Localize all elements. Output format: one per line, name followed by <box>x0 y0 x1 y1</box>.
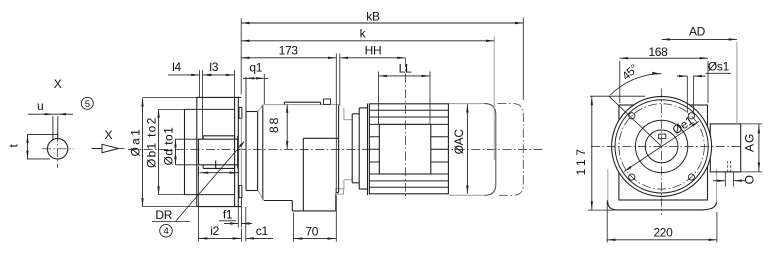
dimension 173 <box>241 43 336 59</box>
AG ext top <box>741 123 762 125</box>
Oa1 extension bottom <box>143 206 197 208</box>
svg-text:LL: LL <box>399 61 412 75</box>
bell tab top <box>239 107 242 118</box>
label OAC <box>452 129 466 155</box>
base silhouette bottom <box>608 202 717 210</box>
dimension O <box>713 180 746 182</box>
svg-text:88: 88 <box>267 117 281 133</box>
motor side fin a <box>369 136 448 138</box>
base silhouette gray right <box>716 169 718 202</box>
fan cowl top <box>449 103 485 105</box>
case bottom edge <box>264 200 292 202</box>
q1 disc bottom <box>246 190 258 192</box>
LL extension left <box>378 72 380 125</box>
HH extension left <box>339 54 341 106</box>
fan cowl right <box>485 104 496 196</box>
l extension left <box>198 166 200 176</box>
bell S-curve bottom <box>258 191 263 201</box>
70 extension right <box>335 196 337 242</box>
flange outer circle <box>612 96 712 196</box>
svg-text:l3: l3 <box>209 60 218 74</box>
bolt hole 3 <box>629 174 635 180</box>
dimension i2 <box>199 224 242 239</box>
case front face <box>262 104 264 200</box>
svg-text:X: X <box>54 77 62 91</box>
Ob1 extension top <box>159 108 185 110</box>
svg-text:117: 117 <box>574 149 588 176</box>
kB extension right <box>522 18 524 101</box>
dimension AD <box>662 24 737 40</box>
DR leader <box>176 141 245 221</box>
svg-text:173: 173 <box>279 43 299 57</box>
pilot cylinder front face <box>184 109 186 194</box>
dimension Oa1 line <box>141 98 143 206</box>
label Oe1 <box>670 113 696 137</box>
AG box <box>710 124 740 172</box>
cable entry mark <box>728 161 731 172</box>
dimension l3 <box>203 60 235 76</box>
flange crosshair v <box>661 89 663 216</box>
brake variant dashdot <box>498 104 524 196</box>
173/HH extension mid <box>335 54 337 193</box>
dimension AG <box>758 124 760 172</box>
shaft collar bottom <box>203 165 235 169</box>
dimension l4 <box>168 60 200 76</box>
flange crosshair h <box>591 145 741 147</box>
label AG <box>743 134 757 152</box>
Od extension top <box>176 138 199 140</box>
adapter step B <box>352 114 359 183</box>
label Ob1 to2 <box>145 117 159 168</box>
dimension t <box>26 135 28 159</box>
label f1 <box>219 207 236 221</box>
svg-text:HH: HH <box>365 43 382 57</box>
balloon 4 <box>160 224 173 237</box>
k extension right <box>493 37 495 161</box>
pilot top edge <box>185 108 235 110</box>
label Oa1 <box>128 129 142 157</box>
Os1 ext lines <box>687 76 693 113</box>
key top edge + t extension <box>27 134 58 136</box>
svg-text:168: 168 <box>648 45 668 59</box>
dimension Ob1 line <box>157 109 159 194</box>
kB extension left <box>240 18 242 94</box>
svg-text:Ød to1: Ød to1 <box>161 127 175 166</box>
c1 extension <box>245 207 247 242</box>
svg-text:AD: AD <box>689 24 706 38</box>
shaft top line <box>199 138 238 140</box>
bell tab bottom <box>239 186 242 198</box>
Ob1 extension bottom <box>159 194 185 196</box>
dimension OAC line <box>466 104 468 194</box>
lower box <box>292 193 338 212</box>
Oa1 extension top <box>143 96 197 98</box>
square flange body <box>619 105 708 200</box>
l4 lines <box>200 70 211 139</box>
svg-text:Øa1: Øa1 <box>128 129 142 157</box>
svg-text:4: 4 <box>164 226 169 237</box>
label 45deg <box>620 63 640 83</box>
q1 disc face <box>245 77 247 191</box>
label O <box>742 175 756 184</box>
view label X (detail) <box>54 77 62 91</box>
motor flange face <box>338 105 340 192</box>
svg-text:X: X <box>105 128 113 142</box>
dimension 117 <box>591 96 593 210</box>
i2 extension right <box>240 229 242 242</box>
svg-text:i2: i2 <box>210 224 219 238</box>
220 ext right <box>716 212 718 243</box>
case top edge <box>284 102 320 104</box>
adapter step D <box>367 104 369 196</box>
168 extension left <box>619 61 621 103</box>
view direction arrow X <box>92 144 125 152</box>
dimension HH <box>340 43 406 59</box>
dimension l <box>200 158 239 174</box>
svg-text:O: O <box>742 175 756 184</box>
key side lines / u extension <box>53 116 58 139</box>
dimension Oe1 <box>624 121 699 171</box>
dimension 70 <box>294 224 337 239</box>
f1 extension a <box>237 207 239 228</box>
motor fin 6 <box>369 186 448 188</box>
main centerline <box>128 148 545 150</box>
shaft bottom line <box>199 164 238 166</box>
Os1 label <box>706 59 732 73</box>
svg-text:l4: l4 <box>172 60 181 74</box>
O ext lines <box>725 173 733 187</box>
dimension 220 <box>607 226 717 242</box>
inner case step <box>303 138 338 211</box>
motor centerline vertical <box>404 58 406 199</box>
dimension f1 <box>224 222 252 224</box>
168 extension right <box>707 61 709 103</box>
case top gray line <box>264 104 339 106</box>
bolt circle <box>619 104 704 189</box>
flange top edge <box>197 96 241 98</box>
fan cowl bottom <box>449 194 485 196</box>
117 ext bottom <box>588 209 615 211</box>
Od extension bottom <box>176 164 199 166</box>
dimension u <box>28 113 73 115</box>
svg-text:kB: kB <box>366 9 380 23</box>
AD extension right gray <box>736 42 738 124</box>
svg-text:c1: c1 <box>256 224 269 238</box>
flange ring circle <box>615 100 708 193</box>
terminal box rect <box>379 124 431 174</box>
keyway <box>659 134 666 139</box>
dimension kB <box>241 9 523 24</box>
top plug <box>324 99 331 104</box>
dimension 45deg arc <box>610 72 661 95</box>
dimension q1 <box>243 60 268 79</box>
label 88 <box>267 117 281 133</box>
adapter gray ring <box>344 108 352 190</box>
label t <box>7 144 21 148</box>
motor fin 3 <box>369 123 448 125</box>
dimension c1 <box>246 224 273 239</box>
base silhouette gray left <box>607 169 609 202</box>
svg-text:DR: DR <box>155 208 172 222</box>
svg-text:5: 5 <box>85 99 90 110</box>
svg-text:ØAC: ØAC <box>452 129 466 155</box>
svg-text:f1: f1 <box>223 207 233 221</box>
flange bottom edge <box>197 206 241 208</box>
q1 disc back <box>257 112 259 191</box>
motor fin 1 <box>369 109 448 111</box>
label u <box>37 99 43 113</box>
motor side fin c <box>369 161 448 163</box>
bolt hole 2 <box>688 113 694 119</box>
q1 extension right <box>263 74 265 104</box>
l3 extension right <box>234 70 236 97</box>
shaft crosshair <box>42 133 74 169</box>
motor fin 2 <box>369 116 448 118</box>
motor side fin b <box>369 148 448 150</box>
flange front face <box>196 97 198 206</box>
dimension LL <box>379 61 430 77</box>
inner circle 2 <box>645 130 678 163</box>
line 45deg <box>609 96 662 147</box>
f1 extension b <box>240 198 242 228</box>
AG ext bottom <box>741 171 762 173</box>
flange back face 2 <box>237 97 239 207</box>
drain plug <box>336 189 344 194</box>
svg-text:Øs1: Øs1 <box>708 59 730 73</box>
label DR <box>152 208 190 222</box>
svg-text:u: u <box>37 99 43 113</box>
bell curve gray <box>240 118 242 185</box>
motor fin 4 <box>369 173 448 175</box>
view arrow label X <box>105 128 113 142</box>
t bottom extension <box>27 158 50 160</box>
bell S-curve top <box>258 104 263 111</box>
117 ext top <box>590 95 645 97</box>
dimension 88 line <box>286 104 288 149</box>
label Od to1 <box>161 127 175 166</box>
motor body <box>369 104 448 194</box>
70 extension left <box>293 213 295 242</box>
motor fin 5 <box>369 180 448 182</box>
svg-text:q1: q1 <box>249 60 262 74</box>
pilot bottom edge <box>185 194 235 196</box>
svg-text:70: 70 <box>305 224 318 238</box>
LL extension right <box>429 72 431 125</box>
svg-text:l: l <box>214 158 216 172</box>
dimension k <box>241 27 494 42</box>
220 ext left <box>606 200 608 243</box>
bolt hole 4 <box>688 174 694 180</box>
i2 extension left <box>198 167 200 242</box>
shaft circle <box>47 139 67 159</box>
flange back face <box>234 97 236 206</box>
svg-text:220: 220 <box>653 226 673 240</box>
label 117 <box>574 149 588 176</box>
dimension 168 <box>620 45 708 59</box>
shaft end face <box>198 139 200 165</box>
inner circle 1 <box>635 120 687 172</box>
svg-text:AG: AG <box>743 134 757 152</box>
q1 disc top <box>246 111 258 113</box>
shaft root face <box>237 136 239 169</box>
balloon 5 <box>81 97 93 110</box>
bolt hole 1 <box>629 113 635 119</box>
dimension Od line <box>174 139 176 165</box>
adapter step C <box>359 108 367 189</box>
Os1 arrows <box>677 75 706 77</box>
shaft collar top <box>203 136 235 139</box>
